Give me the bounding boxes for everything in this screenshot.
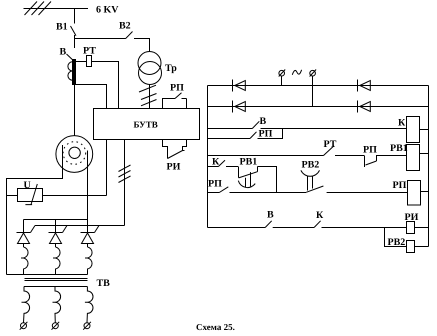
parallel branch contact RP [208,129,283,139]
current transformer bar [73,60,76,85]
branch contact RP row5 [208,187,307,193]
AC terminal right [310,70,316,76]
svg-text:БУТВ: БУТВ [134,120,158,130]
terminal 3 [84,323,90,329]
svg-text:РП: РП [393,180,407,191]
svg-text:РП: РП [170,83,184,94]
svg-text:К: К [316,210,324,221]
6 KV bus [24,8,89,10]
svg-text:К: К [212,157,220,168]
svg-text:РП: РП [259,129,273,140]
svg-text:РП: РП [208,179,222,190]
control circuit right rail [428,86,430,247]
svg-text:РВ1: РВ1 [390,143,408,154]
disconnector B1 [71,26,77,39]
AC terminal left [279,70,285,76]
svg-text:РВ1: РВ1 [240,157,258,168]
arrester U [18,189,43,202]
bus hatch slashes [25,2,52,16]
contact RP above BUTV [163,93,187,109]
timed contact RV2 [306,186,408,193]
gate bus [35,225,125,227]
TV primary coil 2 [53,247,60,275]
row 4 wire with contact RT [208,146,365,156]
thyristor VS2 [49,220,63,248]
svg-text:РИ: РИ [405,212,419,223]
svg-text:РВ2: РВ2 [388,237,406,248]
TV primary common wire [7,274,88,276]
AC tilde [292,70,301,75]
wire junction to B2 [75,38,126,40]
svg-text:В: В [60,47,67,58]
svg-text:В2: В2 [119,21,131,32]
terminal 1 [21,323,27,329]
svg-text:К: К [398,118,406,129]
thyristor VS3 [81,220,95,248]
motor inner circle [69,147,80,158]
relay RT [87,56,92,67]
switch B2 [126,32,133,39]
coil RI [407,222,415,234]
thyristor VS1 [17,220,31,248]
svg-text:РТ: РТ [83,46,96,57]
CT secondary bottom wire [76,85,107,109]
svg-text:РВ2: РВ2 [302,160,320,171]
diode D4 [358,101,371,113]
TV core [25,279,88,281]
svg-text:В1: В1 [56,21,68,32]
wire Tr to BUTV with slashes [149,85,151,109]
control circuit left rail [207,86,209,228]
svg-text:В: В [260,116,267,127]
timed contact RV1 [239,167,277,193]
wire B1 to B [74,39,76,49]
coil K [407,117,420,143]
switch B [67,54,73,60]
TV secondary coil 1 [22,287,30,323]
wire bus to B1 [74,9,76,24]
branch to RV2 coil [385,228,407,247]
TV primary coil 1 [21,247,28,275]
TV secondary wire [24,286,87,288]
motor M [56,136,93,173]
gate link riser with slashes [124,140,126,226]
svg-text:6 KV: 6 KV [96,5,119,16]
TV secondary coil 3 [85,287,93,323]
coil RV2 [407,241,415,253]
row 2 wire [208,106,429,108]
AC wires [282,76,313,107]
row 6 wire with contact B [208,221,315,228]
cathode bus [24,219,88,221]
svg-text:РП: РП [363,145,377,156]
BUTV block [94,109,200,140]
contact RI below BUTV [163,140,187,159]
arrester row wires [7,195,107,197]
wire BUTV to arrester row [106,140,108,196]
terminal 2 [52,323,58,329]
motor rotor dotted ring [63,142,86,165]
row 1 wire [208,85,429,87]
motor bottom terminal wire [87,151,89,220]
diode D1 [233,80,246,92]
wire B2 to Tr [134,39,150,53]
svg-text:В: В [267,210,274,221]
motor left terminal wire [7,145,63,275]
transformer Tr [138,52,161,75]
coil RP [408,181,421,206]
diode D3 [358,80,371,92]
row 5 contact K [208,160,239,166]
svg-text:Тр: Тр [165,63,177,74]
NC contact RP row4 [365,156,408,168]
svg-text:РИ: РИ [167,162,181,173]
svg-text:Схема 25.: Схема 25. [196,322,235,332]
diode D2 [233,101,246,113]
row 3 wire with contact B [208,121,408,128]
svg-text:РТ: РТ [324,139,337,150]
CT winding bumps [68,62,73,80]
TV secondary coil 2 [53,287,61,323]
TV primary coil 3 [85,247,92,275]
svg-text:ТВ: ТВ [97,278,111,289]
svg-text:U: U [24,180,31,191]
CT secondary top wire [76,62,119,109]
main wire to motor [74,85,76,136]
coil RV1 [407,145,420,171]
contact K row6 [314,221,407,228]
